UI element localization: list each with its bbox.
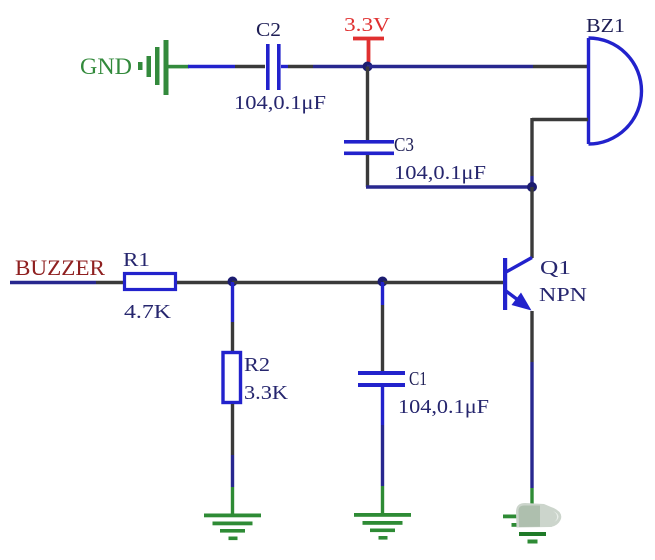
transistor Q1 — [503, 257, 587, 311]
wire C1 to ground — [381, 387, 384, 425]
svg-text:C2: C2 — [256, 19, 281, 41]
svg-text:3.3V: 3.3V — [344, 14, 391, 36]
ground GND power symbol — [80, 40, 189, 95]
wire GND to C2 — [188, 65, 235, 68]
svg-text:GND: GND — [80, 54, 132, 79]
svg-text:104,0.1μF: 104,0.1μF — [234, 92, 326, 114]
svg-text:104,0.1μF: 104,0.1μF — [398, 396, 489, 418]
capacitor C3 — [344, 134, 486, 184]
ground (C1) — [354, 513, 411, 540]
capacitor C2 — [234, 19, 326, 114]
wire junction to buzzer — [367, 65, 533, 68]
svg-text:NPN: NPN — [539, 284, 587, 306]
wire — [231, 455, 234, 487]
resistor R1 — [123, 249, 176, 323]
wire — [530, 176, 533, 187]
node 3.3V junction — [363, 62, 373, 72]
wire — [313, 65, 367, 68]
wire — [96, 281, 124, 284]
svg-text:BZ1: BZ1 — [586, 15, 625, 37]
capacitor C1 — [358, 368, 489, 418]
wire R2 junction down — [231, 282, 234, 322]
wire C2 to 3.3V junction — [281, 65, 288, 68]
wire — [231, 322, 234, 352]
wire C1 junction down — [381, 282, 384, 305]
svg-text:4.7K: 4.7K — [124, 301, 172, 323]
svg-text:C3: C3 — [394, 134, 414, 156]
wire R2 to ground — [231, 404, 234, 455]
svg-text:R1: R1 — [123, 249, 150, 271]
svg-text:BUZZER: BUZZER — [15, 255, 105, 280]
wire — [530, 118, 533, 176]
wire — [530, 488, 533, 515]
node C1 junction — [378, 277, 388, 287]
wire node to Q1 base — [383, 281, 504, 284]
wire — [381, 425, 384, 486]
resistor R2 — [223, 353, 289, 405]
wire — [530, 362, 533, 488]
svg-text:C1: C1 — [409, 368, 427, 390]
wire — [235, 65, 265, 68]
wire 3.3V junction down to C3 — [366, 67, 369, 141]
svg-text:104,0.1μF: 104,0.1μF — [394, 162, 486, 184]
svg-text:Q1: Q1 — [540, 257, 571, 279]
node collector junction — [527, 182, 537, 192]
ground (Q1 emitter) — [503, 515, 560, 544]
svg-text:R2: R2 — [244, 354, 270, 376]
svg-text:3.3K: 3.3K — [244, 382, 289, 404]
wire — [366, 185, 532, 188]
buzzer BZ1 — [586, 15, 642, 144]
wire C3 down and right to junction — [366, 155, 369, 187]
wire Q1 emitter down — [530, 311, 533, 362]
ground (R2) — [204, 514, 261, 541]
node R2 junction — [228, 277, 238, 287]
wire node to node — [232, 281, 383, 284]
wire buzzer bottom lead — [532, 118, 588, 121]
wire BUZZER to R1 — [10, 281, 96, 284]
wire — [533, 65, 588, 68]
watermark blob over ground — [516, 503, 561, 528]
wire — [231, 487, 234, 514]
power 3.3V — [344, 14, 391, 62]
wire R1 to node — [177, 281, 232, 284]
wire junction down to collector — [530, 187, 533, 258]
wire — [288, 65, 313, 68]
wire — [381, 486, 384, 513]
wire — [381, 305, 384, 371]
